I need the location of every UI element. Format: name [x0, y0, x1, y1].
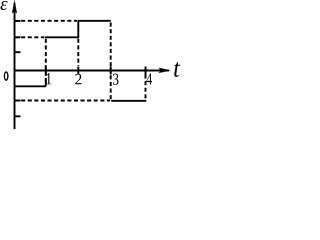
arrowhead t axis — [159, 68, 171, 73]
tick t=2 — [77, 67, 79, 75]
dashed guide horizontal at +3 — [15, 20, 78, 22]
waveform step 3..4 at -2 — [111, 100, 146, 102]
label t — [174, 62, 180, 77]
dashed guide horizontal at -2 — [15, 100, 111, 102]
dashed guide vertical at t=3 — [110, 23, 112, 100]
tick epsilon +1 — [15, 51, 21, 53]
label 3 — [113, 73, 118, 84]
label 4 — [146, 73, 152, 84]
tick t=4 — [145, 67, 147, 75]
dashed guide vertical at t=1 — [45, 39, 47, 86]
label 1 — [46, 73, 51, 84]
label epsilon — [0, 1, 7, 10]
tick epsilon +2 — [15, 36, 21, 38]
waveform jump at t=1 below axis — [45, 78, 47, 86]
waveform step 0..1 at -1 — [15, 85, 46, 87]
waveform jump at t=2 — [77, 21, 79, 38]
tick t=1 — [45, 67, 47, 75]
axis epsilon (vertical) — [14, 3, 16, 129]
dashed guide horizontal at +2 — [15, 36, 45, 38]
waveform step 1..2 at +2 — [45, 36, 79, 38]
axis t (horizontal) — [15, 70, 170, 72]
label 0 — [4, 72, 8, 80]
tick epsilon -2 — [15, 100, 21, 102]
label 2 — [75, 74, 81, 85]
tick epsilon -3 — [15, 115, 21, 117]
tick epsilon +3 — [15, 20, 21, 22]
tick t=3 — [110, 67, 112, 75]
arrowhead epsilon axis — [12, 0, 17, 13]
dashed guide vertical at t=4 — [145, 75, 147, 100]
waveform step 2..3 at +3 — [78, 20, 111, 22]
dashed guide vertical at t=2 — [77, 39, 79, 66]
